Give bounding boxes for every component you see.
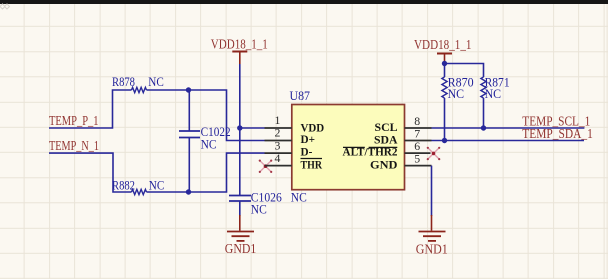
svg-text:NC: NC: [251, 202, 267, 216]
svg-text:NC: NC: [291, 190, 307, 204]
svg-text:VDD: VDD: [301, 122, 325, 134]
label R871: [485, 75, 510, 89]
svg-text:GND: GND: [370, 159, 398, 171]
wire C1026 to ground: [239, 201, 241, 231]
svg-text:VDD18_1_1: VDD18_1_1: [211, 37, 268, 52]
svg-text:SCL: SCL: [375, 122, 398, 134]
pin number 7: [414, 126, 420, 140]
svg-text:GND1: GND1: [416, 243, 448, 258]
svg-text:U87: U87: [290, 89, 311, 103]
svg-text:THR: THR: [301, 159, 323, 171]
net label GND1 left: [225, 242, 256, 257]
pin number 1: [275, 113, 281, 127]
pin 4 stub: [265, 165, 292, 167]
wire from R878 to pin 2 (D+): [147, 90, 265, 141]
svg-text:4: 4: [275, 151, 281, 165]
pin number 5: [414, 152, 420, 166]
pin number 3: [275, 138, 281, 152]
wire C1022 bottom stem: [188, 138, 190, 193]
net label VDD18_1_1 left: [211, 37, 268, 52]
svg-text:NC: NC: [485, 87, 502, 101]
label U87: [290, 89, 311, 103]
capacitor C1026: [229, 196, 251, 202]
net label TEMP_P_1: [49, 114, 99, 129]
label R882: [112, 178, 135, 192]
pin name SCL: [375, 122, 398, 134]
svg-text:ALT/THR2: ALT/THR2: [343, 147, 398, 159]
wire VDD right top rail: [445, 64, 484, 78]
svg-text:NC: NC: [448, 87, 465, 101]
net label TEMP_N_1: [49, 139, 99, 154]
pin 6 stub: [405, 152, 431, 154]
wire R871 to pin 8 line: [483, 98, 485, 128]
svg-text:SDA: SDA: [374, 134, 398, 146]
svg-text:TEMP_N_1: TEMP_N_1: [49, 139, 99, 154]
pin number 2: [275, 126, 281, 140]
label R870: [448, 75, 474, 89]
pin number 4: [275, 151, 281, 165]
pin name THR with overline: [301, 159, 323, 172]
label NC of R871: [485, 87, 502, 101]
junction VDD right: [442, 61, 447, 66]
label NC of R882: [149, 178, 165, 192]
wire VDD left vertical: [239, 64, 241, 128]
resistor R878: [132, 87, 147, 92]
wire from R882 to pin 3 (D-): [147, 153, 265, 192]
svg-text:R882: R882: [112, 178, 135, 192]
wire SCL: [432, 127, 585, 129]
svg-text:NC: NC: [148, 75, 164, 89]
wire TEMP_N_1 horizontal+vertical to R882: [49, 153, 132, 192]
pin name ALT/THR2 with overlines: [343, 147, 398, 159]
wire C1022 top stem: [188, 90, 190, 131]
resistor R882: [132, 189, 147, 194]
label NC of R870: [448, 87, 465, 101]
net label TEMP_SDA_1: [522, 127, 593, 142]
svg-text:TEMP_P_1: TEMP_P_1: [49, 114, 99, 129]
label R878: [112, 75, 135, 89]
label NC of C1026: [251, 202, 267, 216]
svg-text:D-: D-: [301, 146, 313, 158]
pin 5 stub: [405, 165, 432, 167]
ground GND1 left: [227, 232, 254, 241]
pin name D+: [301, 134, 316, 146]
power symbol VDD18_1_1 right: [437, 54, 452, 64]
pin name GND: [370, 159, 398, 171]
svg-text:D+: D+: [301, 134, 316, 146]
resistor R871: [481, 77, 486, 98]
no-connect X on pin 4: [259, 160, 273, 173]
pin name SDA: [374, 134, 398, 146]
svg-text:TEMP_SDA_1: TEMP_SDA_1: [522, 127, 593, 142]
svg-text:NC: NC: [149, 178, 165, 192]
pin 2 stub: [265, 140, 292, 142]
pin 7 stub: [405, 140, 432, 142]
wire SDA: [432, 140, 585, 142]
label NC of R878: [148, 75, 164, 89]
svg-text:VDD18_1_1: VDD18_1_1: [414, 38, 472, 53]
junction bottom of C1022: [186, 189, 191, 194]
pin 1 stub: [265, 127, 292, 129]
pin name D-: [301, 146, 313, 158]
label C1022: [201, 125, 231, 139]
pin 3 stub: [265, 152, 292, 154]
wire R870 top stem: [444, 64, 446, 78]
svg-text:R878: R878: [112, 75, 135, 89]
wire to pin 1 (VDD): [240, 127, 265, 129]
net label GND1 right: [416, 243, 448, 258]
label C1026: [251, 190, 282, 204]
net label TEMP_SCL_1: [522, 114, 590, 129]
pin 8 stub: [405, 127, 432, 129]
pin name VDD: [301, 122, 325, 134]
svg-text:NC: NC: [201, 137, 217, 151]
label NC near pin 4: [291, 190, 307, 204]
resistor R870: [442, 77, 447, 98]
capacitor C1022: [179, 131, 200, 138]
power symbol VDD18_1_1 left: [232, 52, 247, 65]
junction VDD / pin 1: [237, 125, 242, 130]
wire TEMP_P_1 horizontal+vertical to R878: [49, 90, 132, 128]
no-connect X on pin 6: [427, 147, 441, 161]
net label VDD18_1_1 right: [414, 38, 472, 53]
IC U87 body: [292, 105, 405, 190]
svg-text:5: 5: [414, 152, 420, 166]
svg-text:GND1: GND1: [225, 242, 256, 257]
wire R870 to pin 7 line: [444, 98, 446, 141]
wire pin 5 to ground: [431, 166, 433, 231]
junction R871 / SCL: [481, 125, 486, 130]
pin number 6: [414, 139, 420, 153]
wire VDD to C1026: [239, 128, 241, 196]
ground GND1 right: [419, 232, 446, 241]
junction top of C1022: [186, 87, 191, 92]
pin number 8: [414, 114, 420, 128]
label NC of C1022: [201, 137, 217, 151]
junction R870 / SDA: [442, 138, 447, 143]
